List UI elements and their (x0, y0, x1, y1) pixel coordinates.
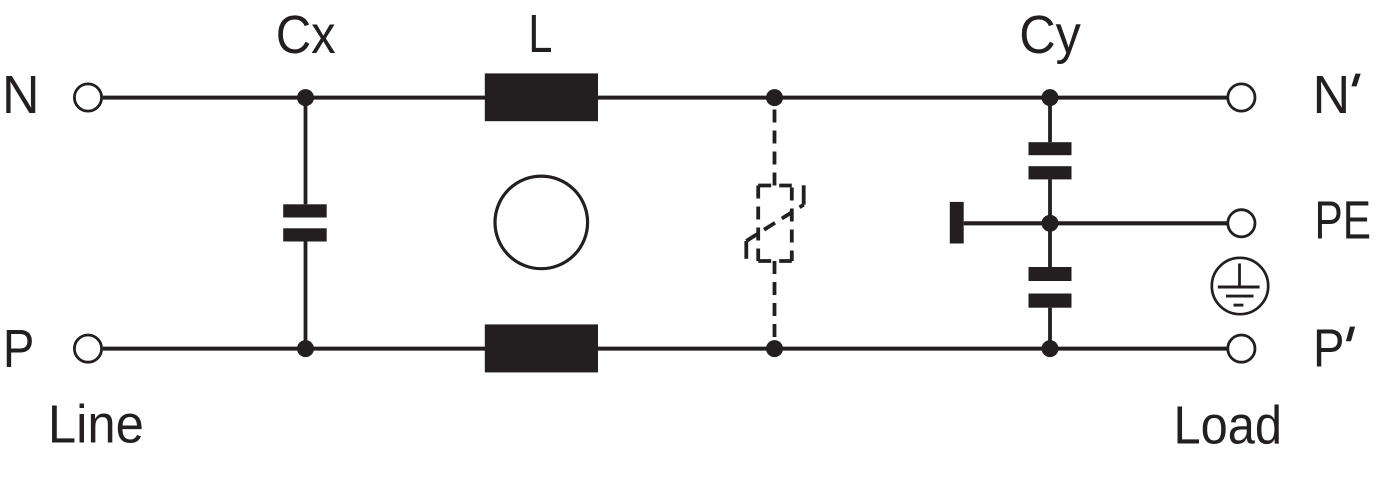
node top Cy junction (1042, 89, 1059, 106)
varistor body dashed rect bottom edge (758, 259, 792, 263)
svg-text:Load: Load (1174, 395, 1283, 455)
svg-text:N: N (1313, 65, 1351, 125)
node PE Cy junction (1042, 215, 1059, 232)
node top Cx junction (297, 89, 314, 106)
terminal PE (1228, 210, 1255, 237)
varistor body dashed rect left edge (756, 186, 760, 262)
wire Cy upper lead (1048, 98, 1052, 143)
wire Cx upper lead (304, 98, 308, 205)
varistor body dashed rect top edge (758, 184, 792, 188)
protective earth symbol (1212, 258, 1268, 314)
capacitor Cx (283, 204, 327, 241)
node top varistor junction (766, 89, 783, 106)
svg-text:Cx: Cx (276, 5, 336, 65)
label P' prime mark (1346, 327, 1355, 342)
chassis tab (950, 202, 964, 244)
wire Cx lower lead (304, 242, 308, 349)
node bottom Cx junction (297, 340, 314, 357)
terminal P' (1228, 335, 1255, 362)
varistor RV1 (dashed, optional) (746, 99, 803, 347)
inductor L core circle (495, 176, 588, 269)
node bottom varistor junction (766, 340, 783, 357)
wire Cy lower lead (1048, 308, 1052, 349)
wire PE rail (964, 221, 1228, 225)
capacitor Cy lower (1029, 267, 1072, 308)
svg-text:Cy: Cy (1019, 5, 1081, 65)
svg-text:P: P (3, 319, 35, 379)
terminal P (74, 335, 101, 362)
varistor dashed diagonal (746, 205, 803, 241)
svg-text:Line: Line (48, 395, 144, 455)
varistor diagonal upper hook (802, 185, 806, 204)
varistor diagonal lower hook (744, 241, 748, 259)
varistor body dashed rect right edge (790, 188, 794, 262)
inductor L winding bottom (485, 324, 598, 372)
inductor L winding top (485, 73, 598, 121)
terminal N' (1228, 84, 1255, 111)
label N' prime mark (1351, 74, 1360, 87)
wire Cy middle lead (1048, 179, 1052, 267)
wire bottom rail P to P' (103, 347, 1228, 351)
wire varistor upper dashed lead (773, 99, 777, 186)
node bottom Cy junction (1042, 340, 1059, 357)
svg-text:PE: PE (1315, 190, 1372, 250)
capacitor Cy upper (1029, 142, 1072, 179)
wire varistor lower dashed lead (773, 261, 777, 347)
svg-text:N: N (2, 65, 40, 125)
svg-text:P: P (1313, 318, 1345, 378)
svg-text:L: L (528, 4, 552, 64)
wire top rail N to N' (103, 96, 1228, 100)
terminal N (74, 84, 101, 111)
